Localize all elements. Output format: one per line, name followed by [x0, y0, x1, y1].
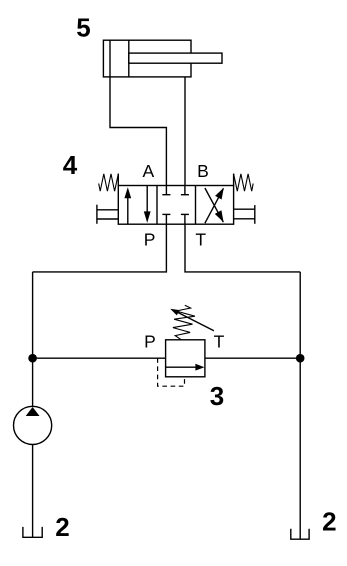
svg-text:B: B — [197, 161, 209, 181]
valve V1 center position blocked port P — [165, 215, 167, 224]
svg-text:A: A — [142, 161, 154, 181]
svg-text:3: 3 — [210, 381, 224, 411]
relief valve RV1 flow arrow — [166, 366, 201, 368]
wire relief valve outlet — [205, 357, 300, 359]
svg-text:5: 5 — [76, 13, 90, 43]
valve V1 right position crossed arrow A-T — [205, 188, 223, 222]
relief valve RV1 adjustment arrow — [175, 311, 214, 331]
svg-text:T: T — [214, 332, 225, 352]
valve V1 left position arrow up — [127, 190, 129, 224]
valve V1 left spring — [117, 174, 119, 186]
cylinder C1 rod — [129, 53, 222, 63]
tank T2 — [291, 529, 309, 540]
relief valve RV1 body — [166, 340, 205, 377]
valve V1 body — [118, 186, 233, 225]
valve V1 right spring — [233, 174, 235, 186]
svg-text:P: P — [144, 332, 156, 352]
tank T1 — [23, 527, 42, 537]
relief valve RV1 spring — [173, 305, 195, 340]
wire relief valve inlet — [33, 357, 166, 359]
svg-text:4: 4 — [63, 150, 78, 180]
relief valve RV1 pilot line dashed — [158, 358, 185, 386]
valve V1 right pilot operator — [234, 208, 255, 210]
svg-text:T: T — [195, 229, 206, 249]
valve V1 left position arrow down — [146, 186, 148, 221]
pump P1 — [13, 406, 51, 444]
valve V1 center position blocked port B — [184, 186, 186, 195]
cylinder C1 body — [103, 40, 191, 77]
wire left bus vertical — [32, 272, 34, 407]
svg-text:2: 2 — [55, 512, 69, 542]
wire cylinder cap port to valve port A — [110, 77, 166, 186]
valve V1 left pilot operator — [97, 209, 118, 211]
wire pump to tank — [32, 444, 34, 537]
wire cylinder rod port to valve port B — [184, 77, 186, 186]
valve V1 center position blocked port A — [165, 186, 167, 195]
junction left — [28, 354, 37, 363]
svg-text:2: 2 — [322, 507, 336, 537]
wire right bus vertical — [299, 272, 301, 539]
wire valve P to left bus — [33, 224, 167, 272]
valve V1 center position blocked port T — [184, 215, 186, 224]
valve V1 right position crossed arrow P-B — [205, 188, 224, 223]
svg-text:P: P — [144, 229, 156, 249]
wire valve T to right bus — [185, 224, 300, 272]
cylinder C1 piston — [109, 40, 111, 77]
junction right — [296, 354, 305, 363]
